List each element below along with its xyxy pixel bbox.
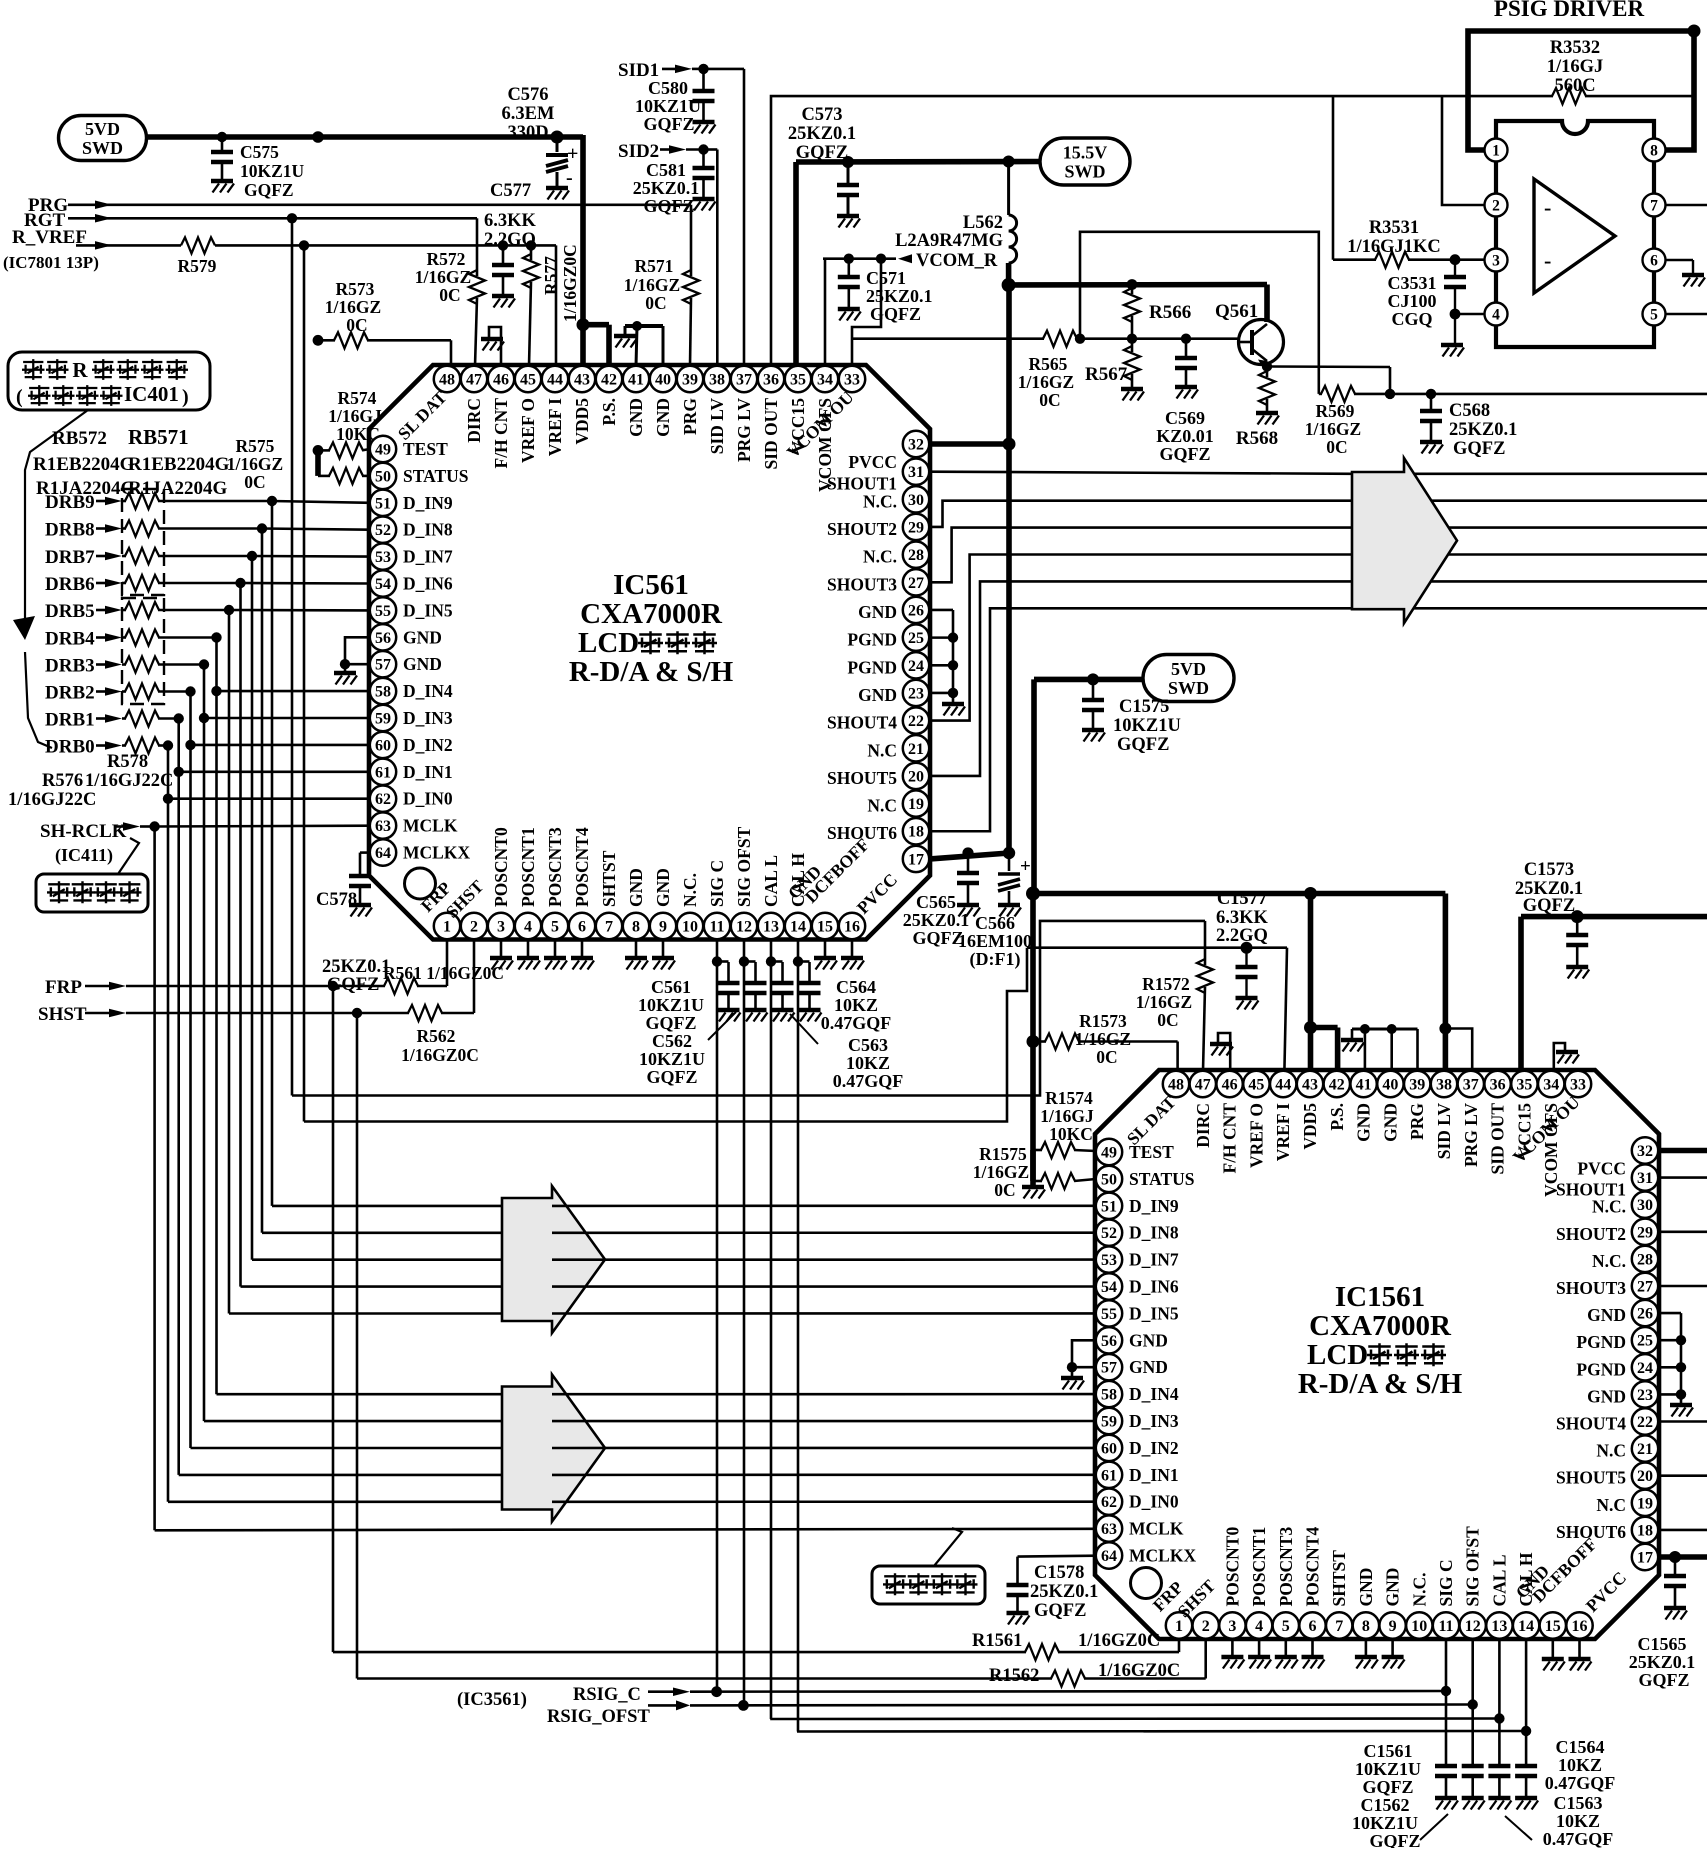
svg-text:5VD: 5VD [85, 119, 120, 139]
pin 34 [1538, 1071, 1564, 1097]
svg-text:0C: 0C [994, 1180, 1015, 1200]
svg-text:1/16GZ: 1/16GZ [624, 275, 680, 295]
pin 30 [903, 486, 929, 512]
pin 26 [903, 597, 929, 623]
svg-text:GQFZ: GQFZ [1362, 1777, 1413, 1797]
svg-text:RB571: RB571 [128, 425, 189, 449]
pin 13 [758, 913, 784, 939]
svg-text:D_IN7: D_IN7 [1129, 1250, 1179, 1270]
wire pin 6 to ground [1666, 259, 1694, 262]
pin 59 [1096, 1408, 1122, 1434]
svg-text:DRB5: DRB5 [45, 601, 95, 622]
svg-text:31: 31 [908, 464, 924, 481]
svg-text:4: 4 [1255, 1618, 1263, 1635]
svg-text:8: 8 [1362, 1618, 1370, 1635]
pin 63 [1096, 1515, 1122, 1541]
svg-text:51: 51 [1101, 1198, 1117, 1215]
svg-text:50: 50 [375, 468, 391, 485]
junction [842, 156, 854, 168]
svg-text:1: 1 [443, 919, 451, 936]
wire SID OUT (pin 36) feedback to op-amp [771, 96, 1442, 366]
svg-text:0C: 0C [1096, 1047, 1117, 1067]
svg-text:C569: C569 [1165, 408, 1205, 428]
svg-text:SWD: SWD [1064, 162, 1105, 182]
pin 10 [677, 913, 703, 939]
pin 17 [1632, 1544, 1658, 1570]
svg-text:47: 47 [466, 372, 482, 389]
capacitor C1575 [1092, 679, 1095, 700]
pin 24 [1632, 1354, 1658, 1380]
svg-text:TEST: TEST [403, 439, 448, 459]
svg-text:0C: 0C [346, 315, 367, 335]
pin 45 [1243, 1071, 1269, 1097]
svg-text:SIG C: SIG C [707, 860, 727, 907]
wire VDD5 drop to pin 43 [580, 135, 586, 325]
pin 31 [903, 458, 929, 484]
svg-text:DRB7: DRB7 [45, 547, 95, 568]
pin 49 [370, 436, 396, 462]
svg-text:27: 27 [908, 575, 924, 592]
resistor R574 (TEST pullup) [313, 445, 324, 456]
svg-text:C578: C578 [316, 890, 357, 910]
svg-text:): ) [182, 386, 189, 408]
svg-text:49: 49 [1101, 1145, 1117, 1162]
pin 45 [515, 366, 541, 392]
svg-text:25KZ0.1: 25KZ0.1 [866, 286, 933, 306]
svg-text:58: 58 [375, 684, 391, 701]
svg-text:0.47GQF: 0.47GQF [821, 1013, 892, 1033]
svg-text:R567: R567 [1085, 364, 1128, 385]
svg-text:DRB2: DRB2 [45, 683, 95, 704]
svg-text:32: 32 [908, 437, 924, 454]
svg-text:15: 15 [817, 919, 833, 936]
svg-text:DRB9: DRB9 [45, 492, 95, 513]
svg-text:VREF O: VREF O [1246, 1103, 1266, 1168]
svg-text:GQFZ: GQFZ [643, 196, 694, 216]
svg-text:POSCNT1: POSCNT1 [1249, 1527, 1269, 1607]
svg-text:DIRC: DIRC [1193, 1103, 1213, 1148]
5V rail vertical [1031, 679, 1037, 893]
grounds under IC1561 bottom pins [1231, 1639, 1234, 1656]
capacitor C577 [502, 245, 505, 265]
junction C1565 [1669, 1551, 1681, 1563]
svg-text:R576: R576 [42, 771, 83, 791]
svg-text:59: 59 [1101, 1414, 1117, 1431]
pin 54 [370, 570, 396, 596]
resistor R1573 to IC1561 pin 48 [1033, 1040, 1046, 1043]
wire inverting input pin 2 [1442, 96, 1485, 205]
pin 14 [1513, 1612, 1539, 1638]
svg-text:0.47GQF: 0.47GQF [1545, 1773, 1616, 1793]
svg-text:1/16GZ: 1/16GZ [227, 454, 283, 474]
resistor R568 [1266, 367, 1269, 378]
resistor R3531 [1333, 258, 1376, 261]
svg-text:-: - [566, 167, 573, 189]
pin 18 [903, 818, 929, 844]
svg-text:C580: C580 [648, 78, 688, 98]
wires IC1561 SHOUT outputs to edge [1659, 1176, 1707, 1179]
pin 30 [1632, 1192, 1658, 1218]
svg-text:1/16GJ22C: 1/16GJ22C [85, 771, 173, 791]
pin 51 [1096, 1193, 1122, 1219]
pin 60 [1096, 1435, 1122, 1461]
svg-text:CXA7000R: CXA7000R [1309, 1310, 1452, 1342]
resistor R562 [357, 1012, 409, 1015]
svg-text:D_IN6: D_IN6 [403, 574, 453, 594]
svg-text:64: 64 [1101, 1548, 1117, 1565]
pin 39 [1404, 1071, 1430, 1097]
junction [149, 821, 159, 831]
pin 8 [1353, 1612, 1379, 1638]
svg-text:48: 48 [439, 372, 455, 389]
wire P.S. tie IC1561 [1311, 1025, 1338, 1031]
svg-text:C576: C576 [507, 85, 548, 105]
svg-text:12: 12 [1465, 1618, 1481, 1635]
svg-text:1/16GZ: 1/16GZ [1075, 1029, 1131, 1049]
svg-text:11: 11 [1438, 1618, 1453, 1635]
wire IC1561 pin 17 PVCC to edge [1659, 1554, 1707, 1560]
svg-text:R3531: R3531 [1369, 218, 1419, 238]
svg-text:61: 61 [375, 764, 391, 781]
svg-text:2.2GQ: 2.2GQ [1216, 926, 1268, 946]
svg-text:56: 56 [1101, 1333, 1117, 1350]
pin 28 [903, 541, 929, 567]
svg-text:43: 43 [574, 372, 590, 389]
svg-text:MCLK: MCLK [1129, 1519, 1184, 1539]
svg-text:1: 1 [1492, 143, 1500, 160]
resistor RB net DRB6 [122, 582, 126, 585]
svg-text:PVCC: PVCC [1577, 1159, 1626, 1179]
pin 39 [677, 366, 703, 392]
pin 46 [1216, 1071, 1242, 1097]
svg-text:23: 23 [908, 685, 924, 702]
svg-text:D_IN7: D_IN7 [403, 547, 453, 567]
svg-text:F/H CNT: F/H CNT [491, 398, 511, 469]
svg-text:PSIG DRIVER: PSIG DRIVER [1494, 0, 1645, 21]
svg-text:330D: 330D [507, 123, 548, 143]
svg-text:R577: R577 [541, 256, 561, 295]
ground for IC1561 pin 46 [1218, 1033, 1230, 1071]
svg-text:GND: GND [1383, 1568, 1403, 1607]
svg-text:10KZ: 10KZ [1556, 1811, 1600, 1831]
svg-text:12: 12 [736, 919, 752, 936]
svg-text:25: 25 [1637, 1333, 1653, 1350]
svg-text:SID LV: SID LV [707, 398, 727, 455]
svg-text:1/16GZ0C: 1/16GZ0C [1078, 1631, 1160, 1651]
capacitor C564 [798, 960, 810, 963]
svg-text:F/H CNT: F/H CNT [1220, 1103, 1240, 1174]
capacitor C568 [1430, 394, 1433, 411]
junction [698, 144, 708, 154]
svg-text:R-D/A & S/H: R-D/A & S/H [569, 656, 734, 688]
svg-text:R: R [72, 358, 88, 382]
capacitor C571 [847, 259, 850, 277]
svg-text:3: 3 [497, 919, 505, 936]
svg-text:56: 56 [375, 630, 391, 647]
capacitor C563 [771, 960, 783, 963]
pin 3 [1485, 249, 1508, 272]
junction C1573 [1571, 910, 1584, 923]
ground cluster pins 26-23 [930, 609, 953, 612]
pin 20 [903, 763, 929, 789]
svg-text:37: 37 [1463, 1077, 1479, 1094]
svg-text:1/16GZ0C: 1/16GZ0C [560, 244, 580, 322]
resistor RB net DRB4 [122, 636, 126, 639]
svg-text:53: 53 [1101, 1252, 1117, 1269]
svg-text:DRB0: DRB0 [45, 737, 95, 758]
wire IC1561 pin 32 to edge [1659, 1148, 1707, 1154]
svg-text:+: + [567, 143, 578, 165]
pin 44 [1270, 1071, 1296, 1097]
svg-text:1/16GZ: 1/16GZ [1136, 992, 1192, 1012]
svg-text:64: 64 [375, 845, 391, 862]
svg-text:GQFZ: GQFZ [1369, 1831, 1420, 1848]
svg-text:-: - [1544, 248, 1551, 273]
svg-text:0.47GQF: 0.47GQF [833, 1071, 904, 1091]
svg-text:0C: 0C [439, 285, 460, 305]
wire 5V to rail [1034, 677, 1143, 683]
svg-text:10KZ1U: 10KZ1U [639, 1049, 705, 1069]
svg-text:63: 63 [1101, 1521, 1117, 1538]
svg-text:13: 13 [1491, 1618, 1507, 1635]
svg-text:52: 52 [375, 522, 391, 539]
svg-text:SIG OFST: SIG OFST [1463, 1526, 1483, 1607]
pin 38 [1431, 1071, 1457, 1097]
pin 22 [903, 707, 929, 733]
svg-text:(: ( [16, 386, 23, 408]
svg-text:C571: C571 [866, 268, 906, 288]
pin 15 [812, 913, 838, 939]
pin 41 [623, 366, 649, 392]
svg-text:10KZ1U: 10KZ1U [1113, 716, 1181, 736]
pin 60 [370, 732, 396, 758]
IC IC561 body outline [369, 365, 930, 940]
pin 21 [903, 735, 929, 761]
pin 33 [1565, 1071, 1591, 1097]
pin 20 [1632, 1463, 1658, 1489]
svg-text:D_IN5: D_IN5 [1129, 1303, 1179, 1323]
pin 4 [1485, 303, 1508, 326]
ground end of 5V rail [1022, 1185, 1044, 1189]
svg-text:51: 51 [375, 495, 391, 512]
svg-text:45: 45 [520, 372, 536, 389]
wire SH-RCLK to MCLK pin 63 [155, 824, 370, 827]
resistor R3532 [1442, 95, 1553, 98]
wire pin 5 to edge [1666, 313, 1707, 316]
svg-text:13: 13 [763, 919, 779, 936]
op-amp triangle [1534, 179, 1615, 293]
svg-text:D_IN4: D_IN4 [403, 681, 453, 701]
svg-text:14: 14 [790, 919, 806, 936]
junction [1688, 25, 1701, 38]
wire base line [852, 337, 1044, 340]
svg-text:KZ0.01: KZ0.01 [1156, 426, 1214, 446]
svg-text:10: 10 [1411, 1618, 1427, 1635]
vertical SIG C / SIG OFST / CAL L / CAL H lines from IC561 pins 11-14 [716, 940, 719, 1692]
svg-text:C1562: C1562 [1361, 1795, 1410, 1815]
svg-text:16: 16 [844, 919, 860, 936]
svg-text:40: 40 [655, 372, 671, 389]
svg-text:R1561: R1561 [972, 1631, 1022, 1651]
junction C1575 [1087, 673, 1099, 685]
pin 17 [903, 846, 929, 872]
svg-text:D_IN2: D_IN2 [1129, 1438, 1179, 1458]
svg-text:(IC411): (IC411) [55, 845, 113, 866]
svg-text:P.S.: P.S. [1327, 1103, 1347, 1131]
pin 6 [569, 913, 595, 939]
svg-text:6.3KK: 6.3KK [1216, 908, 1269, 928]
wires arrow2 to IC1561 pins 58-62 [552, 1393, 1096, 1396]
svg-text:35: 35 [1516, 1077, 1532, 1094]
svg-text:D_IN8: D_IN8 [403, 520, 453, 540]
svg-text:2: 2 [1492, 198, 1500, 215]
svg-text:RSIG_C: RSIG_C [573, 1685, 641, 1705]
svg-text:C562: C562 [652, 1031, 692, 1051]
svg-text:SHOUT2: SHOUT2 [1556, 1224, 1626, 1244]
pin 11 [704, 913, 730, 939]
svg-text:C565: C565 [916, 892, 956, 912]
resistor R569 [1319, 393, 1322, 396]
svg-text:R569: R569 [1316, 401, 1355, 421]
svg-text:55: 55 [1101, 1306, 1117, 1323]
svg-text:D_IN2: D_IN2 [403, 735, 453, 755]
gnd tie pins 40,41 [625, 324, 663, 328]
pin 1 [434, 913, 460, 939]
svg-text:VCOM_R: VCOM_R [916, 251, 998, 271]
wire CAL H to IC1561 [797, 1730, 1526, 1733]
svg-text:GQFZ: GQFZ [1453, 439, 1505, 459]
svg-text:43: 43 [1302, 1077, 1318, 1094]
pin 1 [1485, 139, 1508, 162]
capacitor C1564 [1515, 1764, 1537, 1769]
svg-text:SHOUT5: SHOUT5 [1556, 1468, 1626, 1488]
junction R1573 [1027, 1035, 1040, 1048]
inductor L562 [1007, 162, 1010, 216]
wire RGT riser to IC1561 DIRC [292, 921, 1205, 1096]
svg-text:5: 5 [551, 919, 559, 936]
svg-text:SWD: SWD [1168, 678, 1209, 698]
pin 27 [903, 569, 929, 595]
resistor RB net DRB0 [122, 744, 126, 747]
pin 16 [1566, 1612, 1592, 1638]
svg-text:N.C.: N.C. [863, 491, 897, 511]
svg-text:D_IN8: D_IN8 [1129, 1223, 1179, 1243]
svg-text:R1562: R1562 [989, 1666, 1039, 1686]
pin 29 [1632, 1219, 1658, 1245]
ground pins 56/57 [345, 637, 370, 664]
svg-text:GND: GND [1354, 1103, 1374, 1142]
wire VCOM_R net flag [823, 257, 896, 260]
svg-text:8: 8 [632, 919, 640, 936]
pin 9 [1379, 1612, 1405, 1638]
svg-text:C568: C568 [1449, 401, 1490, 421]
svg-text:44: 44 [1275, 1077, 1291, 1094]
svg-text:54: 54 [375, 576, 391, 593]
svg-text:POSCNT0: POSCNT0 [491, 827, 511, 907]
pin 11 [1433, 1612, 1459, 1638]
svg-text:1/16GZ: 1/16GZ [973, 1162, 1029, 1182]
svg-text:10KZ: 10KZ [834, 995, 878, 1015]
pin 64 [1096, 1542, 1122, 1568]
svg-text:POSCNT4: POSCNT4 [572, 827, 592, 907]
dashed box resistor network 1 [122, 489, 164, 595]
capacitor C562 [744, 960, 756, 963]
junction C577/R577 taps [498, 240, 508, 250]
svg-text:0C: 0C [244, 472, 265, 492]
wire SHST to R1562 [357, 1677, 1052, 1680]
pin 50 [370, 463, 396, 489]
svg-text:DRB6: DRB6 [45, 574, 95, 595]
junction R_VREF branch [299, 240, 309, 250]
svg-text:28: 28 [908, 547, 924, 564]
svg-text:GND: GND [1129, 1330, 1168, 1350]
wire pin 33 VCOM OU riser [852, 259, 881, 366]
pin 35 [1511, 1071, 1537, 1097]
svg-text:R561 1/16GZ0C: R561 1/16GZ0C [383, 963, 504, 983]
pin 48 [1163, 1071, 1189, 1097]
pin 32 [903, 431, 929, 457]
svg-text:1/16GZ: 1/16GZ [1018, 372, 1074, 392]
svg-text:SID LV: SID LV [1434, 1103, 1454, 1160]
pin 6 [1299, 1612, 1325, 1638]
capacitor C1565 [1674, 1557, 1677, 1576]
svg-text:VREF O: VREF O [518, 398, 538, 463]
svg-text:R574: R574 [338, 388, 377, 408]
svg-text:N.C.: N.C. [680, 873, 700, 907]
svg-text:1: 1 [1175, 1618, 1183, 1635]
svg-text:Q561: Q561 [1215, 301, 1258, 322]
svg-text:61: 61 [1101, 1467, 1117, 1484]
capacitor C1562 [1462, 1764, 1484, 1769]
svg-text:SID2: SID2 [618, 141, 659, 162]
pin 61 [1096, 1462, 1122, 1488]
svg-text:MCLKX: MCLKX [403, 843, 470, 863]
svg-text:POSCNT4: POSCNT4 [1303, 1527, 1323, 1607]
pin 16 [839, 913, 865, 939]
svg-text:SID OUT: SID OUT [761, 398, 781, 470]
svg-text:GND: GND [403, 654, 442, 674]
wire collector rail 15.5V [1009, 282, 1267, 288]
pin 57 [370, 651, 396, 677]
svg-text:54: 54 [1101, 1279, 1117, 1296]
svg-text:53: 53 [375, 549, 391, 566]
svg-text:4: 4 [524, 919, 532, 936]
svg-text:D_IN0: D_IN0 [1129, 1492, 1179, 1512]
pin 58 [1096, 1381, 1122, 1407]
svg-text:SH-RCLK: SH-RCLK [40, 821, 127, 842]
resistor RB net DRB3 [122, 663, 126, 666]
wire MCLK line to IC1561 pin 63 [155, 1529, 1096, 1531]
svg-text:63: 63 [375, 818, 391, 835]
wire 5V drop to IC1561 pin 38 / 37 [1443, 894, 1449, 1072]
svg-text:C561: C561 [651, 977, 691, 997]
junction base nodes [1075, 334, 1085, 344]
svg-text:GND: GND [1356, 1568, 1376, 1607]
pin 37 [1458, 1071, 1484, 1097]
wire VCC15 IC1561 pin 35 from right [1521, 914, 1707, 920]
pin 41 [1350, 1071, 1376, 1097]
svg-text:6: 6 [1309, 1618, 1317, 1635]
resistor R571 to pin 39 (PRG) [683, 270, 699, 304]
svg-text:PGND: PGND [847, 630, 897, 650]
svg-text:GQFZ: GQFZ [1523, 896, 1575, 916]
pin 19 [1632, 1490, 1658, 1516]
pin 12 [731, 913, 757, 939]
svg-text:SHOUT3: SHOUT3 [827, 574, 897, 594]
svg-text:R-D/A & S/H: R-D/A & S/H [1298, 1368, 1463, 1400]
svg-text:0.47GQF: 0.47GQF [1543, 1829, 1614, 1848]
svg-text:32: 32 [1637, 1143, 1653, 1160]
